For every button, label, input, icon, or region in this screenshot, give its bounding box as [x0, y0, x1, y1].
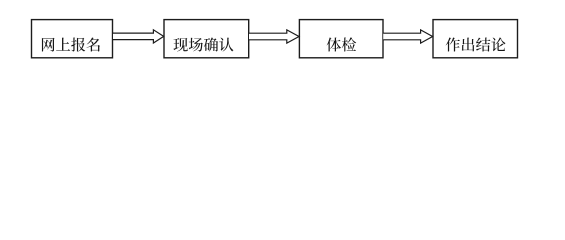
process box: 作出结论: [433, 20, 518, 58]
process box: 网上报名: [32, 20, 113, 58]
label: 体检: [327, 37, 357, 51]
label: 网上报名: [42, 37, 100, 51]
process box: 现场确认: [164, 20, 249, 58]
label: 作出结论: [446, 37, 506, 51]
label: 现场确认: [173, 37, 233, 51]
flow arrow 3: [383, 30, 432, 43]
flow arrow 2: [249, 30, 299, 43]
process box: 体检: [299, 20, 383, 58]
flow arrow 1: [113, 30, 164, 43]
